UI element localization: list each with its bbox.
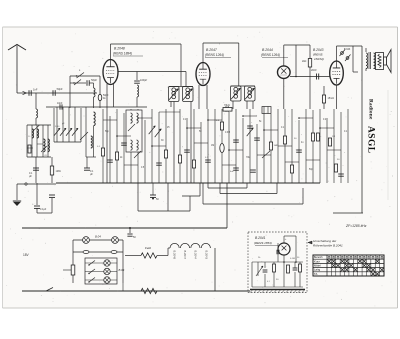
svg-text:B.2047: B.2047 bbox=[183, 251, 187, 260]
svg-text:Feld: Feld bbox=[145, 246, 151, 250]
svg-text:(RENS: (RENS bbox=[313, 53, 324, 57]
svg-text:(RENS 1854): (RENS 1854) bbox=[254, 241, 272, 245]
svg-text:10pF: 10pF bbox=[57, 102, 63, 105]
svg-text:B.2047: B.2047 bbox=[206, 48, 217, 52]
svg-text:Röhrenfamilie B.2041: Röhrenfamilie B.2041 bbox=[313, 244, 343, 248]
svg-text:4nF: 4nF bbox=[230, 171, 234, 173]
svg-text:1M: 1M bbox=[211, 145, 214, 147]
svg-text:ASGL: ASGL bbox=[366, 126, 376, 154]
svg-text:15mΩ: 15mΩ bbox=[328, 97, 335, 100]
svg-text:1823d): 1823d) bbox=[314, 57, 324, 61]
svg-text:B.2043: B.2043 bbox=[204, 251, 208, 260]
svg-text:1MΩ: 1MΩ bbox=[56, 170, 61, 173]
svg-text:50pF: 50pF bbox=[91, 78, 97, 82]
svg-text:1MΩ: 1MΩ bbox=[274, 145, 279, 147]
svg-text:(RENS 1884): (RENS 1884) bbox=[113, 52, 132, 56]
svg-text:3-30: 3-30 bbox=[55, 126, 60, 128]
svg-text:LW: LW bbox=[44, 155, 47, 157]
svg-text:Radione: Radione bbox=[368, 99, 374, 120]
svg-text:0.1M: 0.1M bbox=[290, 258, 295, 260]
svg-text:B.04: B.04 bbox=[119, 268, 125, 272]
svg-text:1nF: 1nF bbox=[33, 88, 38, 92]
svg-text:B.2048: B.2048 bbox=[114, 47, 125, 51]
svg-text:B.2044: B.2044 bbox=[194, 251, 198, 260]
svg-text:TA: TA bbox=[314, 272, 318, 276]
svg-text:B.2041: B.2041 bbox=[255, 236, 266, 240]
svg-text:B.943: B.943 bbox=[344, 48, 351, 51]
svg-text:18V: 18V bbox=[23, 253, 30, 257]
svg-text:70kΩ: 70kΩ bbox=[224, 104, 230, 107]
svg-text:0.3M: 0.3M bbox=[225, 132, 230, 134]
svg-text:B.04: B.04 bbox=[95, 235, 101, 239]
svg-text:0.1µF: 0.1µF bbox=[40, 208, 47, 211]
svg-text:(RENS 1264): (RENS 1264) bbox=[261, 53, 280, 57]
svg-text:B.2044: B.2044 bbox=[262, 48, 273, 52]
svg-text:(RENS 1264): (RENS 1264) bbox=[205, 53, 224, 57]
svg-text:100pF: 100pF bbox=[140, 79, 148, 82]
svg-text:2kΩ: 2kΩ bbox=[302, 60, 307, 63]
svg-text:50pF: 50pF bbox=[57, 87, 63, 91]
svg-text:ZF=1285 kHz: ZF=1285 kHz bbox=[345, 224, 367, 228]
svg-text:Umschaltung der: Umschaltung der bbox=[313, 239, 337, 243]
svg-text:B.2043: B.2043 bbox=[313, 48, 324, 52]
svg-text:1M: 1M bbox=[332, 136, 335, 138]
svg-text:B.2048: B.2048 bbox=[173, 251, 177, 260]
svg-text:40nF: 40nF bbox=[311, 69, 317, 72]
